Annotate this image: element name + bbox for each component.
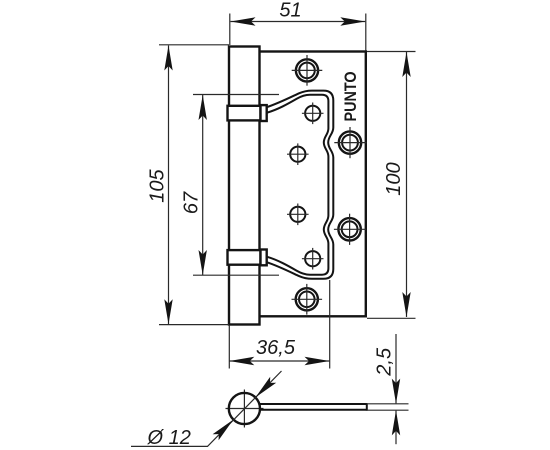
svg-text:36,5: 36,5 xyxy=(256,337,296,359)
svg-text:100: 100 xyxy=(383,162,405,195)
svg-text:67: 67 xyxy=(181,191,203,214)
svg-text:51: 51 xyxy=(279,0,301,22)
svg-text:PUNTO: PUNTO xyxy=(341,72,360,122)
svg-text:Ø 12: Ø 12 xyxy=(147,427,191,449)
svg-text:105: 105 xyxy=(147,168,169,202)
svg-text:2,5: 2,5 xyxy=(374,347,396,377)
